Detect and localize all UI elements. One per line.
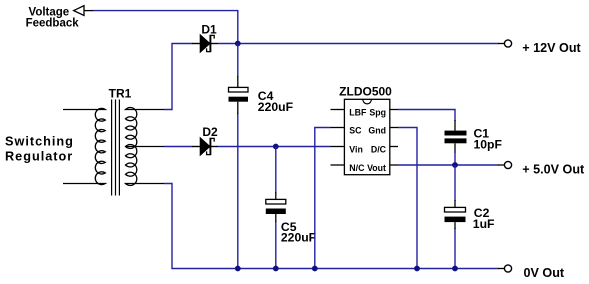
junction dot: C5 at rail <box>273 266 279 272</box>
svg-text:N/C: N/C <box>349 163 365 173</box>
terminal: +12V Out <box>498 40 512 47</box>
junction dot: C5 tap <box>273 144 279 150</box>
svg-text:Voltage: Voltage <box>29 6 70 18</box>
terminal: +5.0V Out <box>498 161 512 168</box>
svg-text:0V Out: 0V Out <box>524 266 565 280</box>
diode D1 <box>192 35 218 52</box>
svg-text:Vin: Vin <box>349 144 363 154</box>
svg-text:D/C: D/C <box>371 144 387 154</box>
svg-text:D1: D1 <box>201 23 217 37</box>
wire: secondary top to D1 anode <box>164 44 193 110</box>
capacitor C1 <box>445 120 467 153</box>
junction dot: 5V/C1/C2 node <box>452 162 458 168</box>
label: Voltage Feedback <box>26 6 80 29</box>
svg-text:D2: D2 <box>202 125 218 139</box>
wire: C4 branch vertical <box>237 44 239 269</box>
label: Switching Regulator <box>5 135 74 164</box>
label C5 / 220uF <box>281 220 316 245</box>
IC pin stubs <box>331 110 399 166</box>
transformer TR1 secondary center tap <box>126 146 165 148</box>
svg-text:SC: SC <box>349 125 362 135</box>
wire: C1 bottom to 5V line <box>454 152 456 165</box>
wire: Spg to C1 top <box>398 110 455 122</box>
wire: D1 to +12V terminal <box>218 43 499 45</box>
label C4 / 220uF <box>258 89 293 114</box>
svg-text:Switching: Switching <box>5 135 74 149</box>
transformer TR1 core <box>112 100 120 196</box>
label C1 / 10pF <box>474 126 502 151</box>
label C2 / 1uF <box>473 206 495 231</box>
svg-text:LBF: LBF <box>349 107 367 117</box>
svg-text:+ 5.0V Out: + 5.0V Out <box>522 163 585 177</box>
capacitor C4 <box>229 76 249 114</box>
svg-text:+ 12V Out: + 12V Out <box>522 41 581 55</box>
svg-text:Spg: Spg <box>369 107 386 117</box>
junction dot: C4 at rail <box>235 266 241 272</box>
wire: Gnd pin down to 0V rail <box>398 128 417 269</box>
svg-text:220uF: 220uF <box>258 100 293 114</box>
junction dot: D1/C4 node <box>235 41 241 47</box>
svg-text:Feedback: Feedback <box>26 18 80 30</box>
wire: Vout to +5V terminal <box>398 164 499 166</box>
diode D2 <box>192 138 218 155</box>
svg-text:Regulator: Regulator <box>5 150 73 164</box>
IC pin labels <box>349 107 386 173</box>
svg-text:TR1: TR1 <box>109 87 132 101</box>
terminal: 0V Out <box>498 265 512 272</box>
svg-text:10pF: 10pF <box>474 138 502 152</box>
capacitor C2 <box>445 200 466 229</box>
IC U1 body <box>344 99 389 174</box>
junction dot: Gnd at rail <box>414 266 420 272</box>
junction dot: C2 at rail <box>452 266 458 272</box>
wire: C2 branch vertical <box>454 165 456 269</box>
transformer TR1 primary winding <box>63 108 105 184</box>
feedback arrow <box>74 6 93 16</box>
svg-text:ZLDO500: ZLDO500 <box>339 84 392 98</box>
wire: C5 branch vertical <box>275 147 277 269</box>
svg-text:Vout: Vout <box>367 163 386 173</box>
svg-text:Gnd: Gnd <box>368 125 386 135</box>
wire: secondary bottom to 0V rail <box>164 184 499 269</box>
svg-text:1uF: 1uF <box>473 217 495 231</box>
wire: center tap to D2 <box>164 146 193 148</box>
junction dot: SC at rail <box>312 266 318 272</box>
transformer TR1 secondary winding <box>126 108 165 186</box>
wire: SC pin down to 0V rail <box>315 128 331 269</box>
capacitor C5 <box>266 192 286 222</box>
svg-text:220uF: 220uF <box>281 230 316 244</box>
wire: D2 to Vin pin <box>218 146 331 148</box>
IC notch <box>363 99 372 104</box>
wire: feedback line to D1 node <box>93 11 238 44</box>
